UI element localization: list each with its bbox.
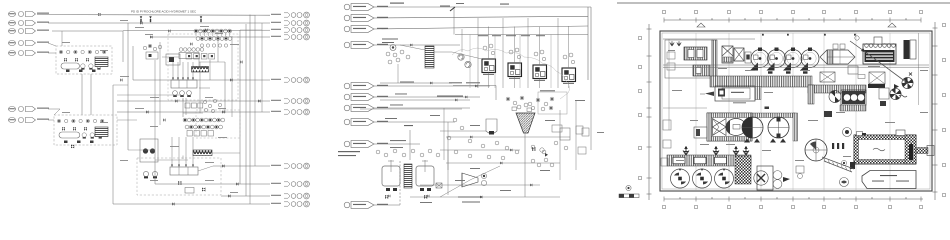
- L-shaped ladder band: [808, 85, 866, 104]
- wire drop into skid A: [61, 31, 63, 46]
- local panel box: [538, 92, 567, 114]
- small box on left wall: [661, 158, 668, 166]
- label CT-100: [440, 6, 450, 7]
- wire vert x246: [245, 24, 247, 196]
- right outlet connector R3 (VENT): [271, 27, 309, 33]
- wire from L3: [52, 30, 123, 32]
- grate bars: [832, 143, 844, 149]
- unit U1 tail drop: [488, 73, 490, 89]
- unit U3 instrument bubbles: [534, 50, 546, 61]
- mill frame box (ladder borders): [707, 113, 752, 141]
- unit U3 tail drop: [539, 79, 541, 89]
- skid A instrument circles row: [59, 50, 106, 53]
- fan circle left of blower: [829, 90, 841, 102]
- crusher machine (dark louvers): [863, 37, 896, 64]
- wire vert x133: [132, 46, 134, 80]
- wire to R4: [150, 36, 270, 38]
- small feed box before circles: [745, 52, 751, 63]
- wire vert x91: [90, 74, 92, 115]
- wire y205: [374, 204, 400, 206]
- vent symbols above roof: [697, 23, 896, 27]
- riser x454 w/ branch mark: [450, 3, 464, 35]
- skid B instrument circles row: [57, 119, 104, 122]
- wire to R5 (PROD): [133, 79, 270, 81]
- wire y109: [360, 108, 462, 110]
- wire y83: [380, 82, 452, 84]
- wire vert x225: [224, 62, 226, 113]
- heater block HB (hatched): [95, 127, 108, 137]
- lower dashed enclosure D: [196, 110, 240, 138]
- wire feed y45: [374, 44, 460, 46]
- distribution manifold C: [171, 80, 197, 88]
- pump box upper-left of manifold D: [140, 139, 158, 162]
- mid inlet flag M4: [344, 42, 374, 49]
- diagonal drain line: [440, 180, 470, 197]
- mid inlet flag M9: [344, 141, 374, 148]
- label bubble: [843, 128, 852, 137]
- label riser: [404, 125, 413, 126]
- wire y97: [374, 96, 480, 98]
- right outlet connector R9 (COND): [271, 181, 309, 187]
- bowtie between fans: [894, 84, 899, 89]
- wire to R7 (DRAIN): [117, 111, 270, 113]
- label top line: [390, 3, 404, 4]
- wire to F1: [400, 45, 425, 50]
- top dimension line: [664, 18, 921, 23]
- label cont sheet: [338, 151, 360, 152]
- filter F1 (hatched vertical): [425, 46, 434, 68]
- cluster C box: [179, 53, 199, 59]
- stairs diagonal: [822, 157, 854, 172]
- agitated tank T3: [416, 160, 434, 191]
- dark blob under X-box2: [880, 101, 886, 106]
- wire vert x576: [575, 100, 577, 170]
- skid A pump symbols: [81, 64, 101, 70]
- row grid labels left: [639, 37, 642, 180]
- wire to R8: [213, 165, 270, 167]
- packed column T2 (hatched): [404, 164, 412, 188]
- right dimension line: [933, 22, 938, 200]
- box right mid 2: [576, 126, 583, 134]
- main bus vertical double x588-591: [587, 7, 589, 80]
- small aux left of mill: [694, 127, 707, 138]
- blender box w/ circle (bottom middle): [754, 166, 773, 190]
- unit U1 instrument bubbles: [483, 44, 495, 55]
- storage tanks bottom row (plan circles): [671, 169, 734, 189]
- wire top header y14: [37, 14, 270, 17]
- mid inlet flag M10: [344, 202, 374, 209]
- electrical room callout banner: [862, 171, 916, 189]
- label2 under y85: [466, 82, 480, 83]
- left inlet connector flag L6 (STEAM SUPPLY): [8, 106, 49, 111]
- skid A dashed equipment enclosure: [56, 46, 112, 74]
- manifold C riser arrows: [172, 62, 194, 80]
- bowtie screen inside: [713, 119, 727, 136]
- unit U3 feed drop: [539, 27, 541, 66]
- clarifier bubbles: [517, 103, 535, 110]
- dark block bottom-left of dryer: [850, 162, 855, 169]
- instrument cluster C (two rows of bubbles): [194, 29, 232, 47]
- wire vert x82: [81, 74, 83, 115]
- skid B dashed equipment enclosure: [54, 115, 117, 145]
- wire L7 horiz: [48, 119, 54, 121]
- x mark: [909, 73, 912, 76]
- label drain header: [437, 96, 463, 97]
- dryer machine (checker frame): [854, 130, 916, 164]
- wire vert x250: [249, 15, 251, 205]
- right outlet connector R5 (PROD): [271, 77, 309, 83]
- right outlet connector R4 (SLURRY): [271, 34, 309, 40]
- bus line extension: [590, 80, 592, 150]
- diagonal transfer conveyor: [864, 51, 910, 84]
- skid A feed vessel (horizontal oval): [61, 63, 79, 69]
- column grid labels top: [663, 11, 923, 14]
- building outline: [660, 31, 932, 191]
- bottom dimension line: [664, 197, 923, 202]
- wire vert x128: [127, 23, 129, 150]
- mid inlet flag M1: [344, 4, 374, 11]
- wire from L2: [48, 22, 128, 24]
- agitated tank T1: [382, 160, 400, 191]
- interior horizontal service line: [663, 107, 707, 109]
- skid B feed vessel (horizontal oval): [59, 132, 80, 138]
- wire F1 out: [434, 51, 452, 53]
- X-braced box 1: [820, 72, 835, 82]
- vessel V2 (small tank): [486, 119, 497, 134]
- dark blob above granulator: [824, 111, 832, 117]
- left inlet connector flag L5 (REAGENT CHRG): [8, 50, 49, 55]
- left inlet connector flag L3 (PROCESS WTR): [8, 28, 49, 33]
- blower unit w/ white rotors: [841, 90, 866, 105]
- blobs under circles: [768, 71, 808, 73]
- column grid labels bottom: [663, 206, 923, 209]
- wire drop x496: [495, 86, 497, 101]
- small wall items left: [663, 120, 671, 148]
- dark valve blob: [783, 177, 790, 182]
- label under y85: [449, 82, 462, 83]
- wire vert x448: [447, 150, 449, 195]
- unit area label row: [478, 35, 545, 36]
- valve pair below skid B: [71, 145, 74, 149]
- pumps C: [173, 91, 192, 97]
- right outlet connector R10 (BLOWDN): [271, 193, 309, 199]
- bottom valves: [385, 195, 427, 199]
- skid A valve marks: [64, 58, 100, 62]
- wire y100: [380, 99, 470, 101]
- wire to R2: [128, 22, 270, 24]
- unit U2 feed drop: [514, 27, 516, 64]
- skid B valve marks: [62, 127, 98, 131]
- circles row below clarifier: [531, 158, 554, 167]
- small circled dot: [841, 160, 846, 165]
- reactor unit U3: [533, 65, 547, 81]
- tiny X box: [436, 183, 442, 188]
- wire clarifier underflow: [524, 133, 526, 197]
- right outlet connector R6 (RECYCLE): [271, 98, 309, 104]
- mid inlet flag M5: [344, 83, 374, 90]
- agitator tree symbols on band: [683, 146, 749, 155]
- unit U4 tail drop: [568, 82, 570, 89]
- box right mid: [560, 128, 570, 140]
- wire y131: [440, 130, 486, 132]
- agitator tanks (plan view circles): [750, 48, 819, 71]
- text under control room: [733, 102, 746, 103]
- top ladder band extension: [752, 113, 795, 118]
- left inlet connector flag L2 (ACID SUPL): [8, 20, 49, 25]
- wire vert x123: [122, 31, 124, 62]
- skid A bottom dark fittings: [66, 70, 96, 73]
- wire y108: [374, 107, 470, 109]
- cluster D box row: [187, 131, 213, 137]
- wire riser x410: [409, 130, 411, 160]
- wire vert x240: [239, 30, 241, 184]
- header tick arrows: [140, 16, 202, 22]
- clarifier CL1 (cone w/ hatch): [516, 113, 535, 133]
- wire verticals bundle center: [155, 15, 262, 166]
- dashed enclosure bottom: [137, 158, 221, 195]
- wire L6 horiz: [48, 108, 60, 110]
- mid inlet flag M8: [344, 119, 374, 126]
- wire vert x560: [559, 110, 561, 180]
- wire vert x113: [112, 85, 114, 204]
- wire to R9: [155, 183, 270, 185]
- wire to pump D: [154, 150, 156, 184]
- small box left of X-box1: [848, 66, 858, 74]
- skid B bottom dark fittings: [64, 141, 94, 144]
- interior wall line x918: [918, 33, 920, 105]
- unit U4 feed drop: [568, 27, 570, 69]
- wire into unit1: [452, 52, 482, 59]
- instrument cluster D rows: [183, 118, 225, 129]
- electric heater D (chevron element): [193, 150, 212, 156]
- interior column lines: [696, 33, 890, 190]
- pump P201: [390, 45, 396, 51]
- aux box left of cluster C: [166, 54, 180, 65]
- wire horizontals extra: [113, 30, 262, 171]
- plant symbols top-left: [670, 41, 681, 46]
- wire header y29: [374, 26, 588, 29]
- X fan circles pair: [890, 77, 913, 99]
- manifold D riser arrows: [171, 137, 194, 167]
- heater block HA (hatched): [95, 57, 108, 67]
- small unit left of granulator: [796, 166, 804, 179]
- revision cloud boundary: [452, 48, 570, 99]
- wire chevron-manifold D: [182, 156, 184, 160]
- wire y185: [420, 184, 540, 186]
- tank instrument bubbles: [376, 149, 440, 157]
- plan top border line: [617, 2, 950, 4]
- plan text smudges: [668, 50, 928, 161]
- under band: [840, 105, 866, 111]
- wire y86: [374, 85, 490, 87]
- belt feeder 2 (X box): [734, 48, 744, 61]
- mid inlet flag M2: [344, 15, 374, 22]
- long conveyor (hatched band): [710, 76, 812, 87]
- mill ellipse: [726, 119, 746, 136]
- flag label smudges: [377, 6, 585, 205]
- right outlet connector R2 (UF): [271, 20, 309, 26]
- pump circle bottom: [840, 178, 849, 187]
- wire y144: [374, 143, 420, 145]
- wire dashed riser x400: [399, 160, 401, 205]
- small vertical label: [597, 131, 604, 134]
- wire from L4: [48, 43, 56, 46]
- cluster C bubbles row small: [179, 48, 204, 52]
- horizontal vessel (tapered): [820, 44, 855, 64]
- box left of X-circle: [879, 88, 889, 99]
- right outlet connector R11 (SUMP): [271, 201, 309, 207]
- catwalk line y39: [663, 38, 755, 40]
- tick above mills: [765, 107, 770, 110]
- pumps D pair: [143, 171, 157, 178]
- inlet chute arrow: [850, 36, 866, 53]
- boxes right of clarifier: [552, 125, 589, 154]
- label top right: [500, 4, 509, 5]
- scale symbol bottom right of mid panel: [619, 185, 639, 197]
- eductor cone: [462, 173, 487, 187]
- row grid labels right: [943, 24, 946, 197]
- main conveyor line: [663, 64, 929, 66]
- instrument bubbles around P201: [386, 50, 410, 64]
- X-braced box 2 w/ dark base: [868, 72, 885, 88]
- reactor unit U4: [562, 68, 576, 84]
- wire y137: [446, 136, 570, 138]
- belt feeder (X box): [722, 46, 733, 63]
- left inlet connector flag L4 (REAGENT CHRG): [8, 40, 49, 45]
- wire from L5: [48, 52, 56, 54]
- right outlet connector R8 (STEAM): [271, 163, 309, 169]
- wire to R3: [123, 29, 270, 31]
- wire header y34.5: [455, 34, 588, 36]
- right outlet connector R7 (DRAIN): [271, 109, 309, 115]
- left dimension line: [647, 24, 652, 200]
- wire manifold C out: [199, 87, 210, 89]
- wire to R11: [113, 203, 270, 205]
- unit U4 instrument bubbles: [563, 53, 575, 64]
- wire from L6: [54, 109, 60, 115]
- distribution manifold D: [170, 167, 198, 175]
- wall fixture dots: [762, 34, 856, 36]
- electric heater C (chevron element): [192, 67, 209, 73]
- twin small circles: [773, 171, 782, 189]
- wire to R10: [221, 195, 270, 197]
- right outlet connector R1 (OVF): [271, 12, 309, 18]
- valve blobs scattered: [98, 13, 261, 206]
- skid B pump symbols: [82, 133, 102, 139]
- unit U2 tail drop: [514, 77, 516, 89]
- bottom text rows: [458, 197, 482, 203]
- wire header y18: [374, 16, 588, 18]
- label panel: [540, 90, 555, 91]
- wire pumpsC down: [182, 98, 184, 117]
- mill feed platform (top-left): [665, 40, 717, 78]
- mid inlet flag M6: [344, 94, 374, 101]
- small cluster under units: [506, 96, 554, 111]
- tiny label smudges left panel: [62, 20, 239, 193]
- svg-text:PD ID PYROCHLORE ACID HYDROM: PD ID PYROCHLORE ACID HYDROMET 1 SEC: [131, 10, 197, 14]
- left inlet connector flag L1 (MILL FEED SLRY): [8, 11, 49, 16]
- vertical bundle left of center: [444, 18, 558, 170]
- wire y85 under units: [453, 85, 496, 87]
- upper dashed enclosure C: [168, 34, 238, 100]
- mixer platform band w/ windows: [667, 155, 751, 166]
- recirculation circles: [458, 54, 471, 68]
- valve blobs mid panel: [388, 44, 532, 199]
- mid inlet flag M7: [344, 105, 374, 112]
- unit U1 feed drop: [488, 27, 490, 60]
- twin discharge boxes right: [904, 40, 917, 59]
- valves near clarifier bottom: [532, 147, 548, 157]
- label cont sheet 2: [338, 155, 356, 156]
- wire header y7: [374, 6, 591, 8]
- ball mill circle B: [768, 117, 789, 143]
- dark checker block right of band: [735, 156, 751, 184]
- cluster C analyzer box row: [186, 54, 215, 60]
- right ladder strip: [793, 113, 798, 141]
- tiny box between: [858, 75, 865, 79]
- wire y150: [440, 149, 520, 151]
- left inlet connector flag L7 (COND RETURN): [8, 117, 49, 122]
- wire C box to heater: [198, 59, 200, 67]
- interior vertical service line: [668, 39, 670, 130]
- wire y163: [446, 162, 560, 164]
- reactor unit U2: [508, 63, 522, 79]
- squiggle below fan: [899, 95, 907, 97]
- control room (double box): [715, 86, 761, 101]
- dryer shaft: [916, 146, 934, 156]
- mini cluster between C and D: [185, 99, 222, 112]
- unit U2 instrument bubbles: [509, 48, 521, 59]
- scattered instrument bubbles: [447, 118, 568, 160]
- feed line labels: [382, 39, 414, 119]
- entrance arrow: [700, 92, 714, 97]
- mid inlet flag M3: [344, 26, 374, 33]
- granulator big circle: [805, 139, 827, 161]
- ball mill circle A (half dark): [742, 117, 763, 143]
- mini cluster between skidA and C: [143, 44, 162, 59]
- wire y197: [410, 196, 560, 198]
- wire y122: [374, 121, 455, 123]
- valve blobs D: [178, 181, 205, 193]
- wire down from unit: [397, 64, 399, 83]
- reactor unit U1: [482, 59, 496, 75]
- wire to R6 (RECYCLE): [117, 100, 270, 102]
